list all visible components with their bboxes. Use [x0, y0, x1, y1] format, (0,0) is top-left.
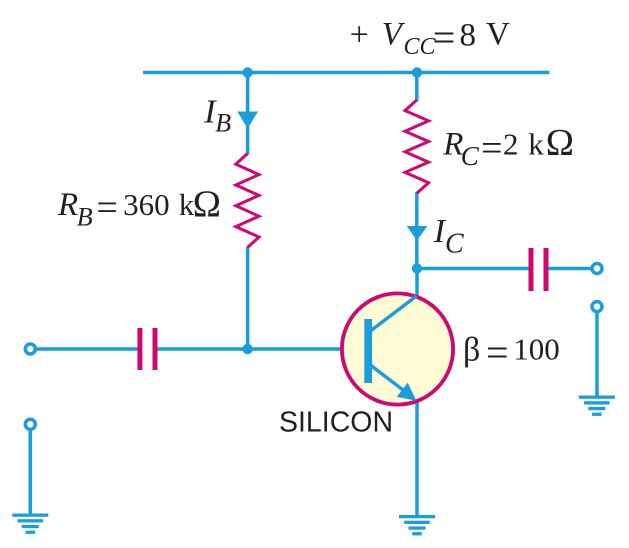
svg-text:+: + [350, 17, 369, 54]
svg-text:Ω: Ω [546, 122, 574, 164]
svg-text:V: V [382, 17, 406, 53]
svg-text:C: C [445, 229, 464, 260]
svg-text:100: 100 [513, 332, 560, 367]
svg-text:=: = [481, 127, 502, 169]
svg-text:β: β [463, 331, 480, 368]
svg-text:B: B [215, 109, 231, 138]
svg-text:R: R [57, 187, 78, 223]
svg-text:C: C [461, 141, 480, 171]
svg-text:CC: CC [404, 34, 437, 60]
svg-text:B: B [77, 202, 93, 231]
svg-text:SILICON: SILICON [279, 406, 393, 438]
svg-text:8: 8 [460, 18, 477, 54]
svg-text:k: k [528, 126, 544, 161]
svg-text:V: V [486, 17, 510, 53]
svg-text:=: = [96, 187, 117, 229]
svg-text:=: = [486, 330, 509, 375]
svg-text:=: = [433, 15, 456, 60]
svg-text:360: 360 [123, 187, 170, 222]
svg-text:2: 2 [503, 126, 519, 161]
svg-text:Ω: Ω [193, 183, 221, 225]
